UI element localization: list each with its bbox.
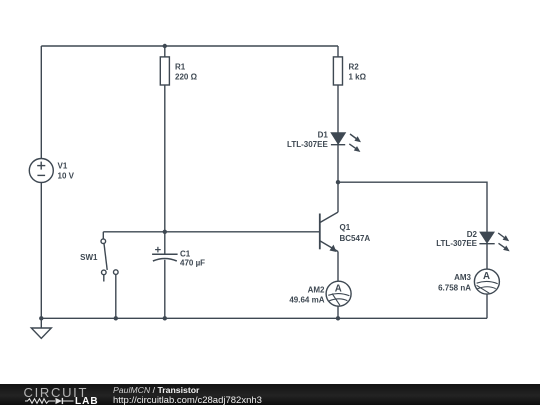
node: junction ground rail / ground symbol [39,316,43,320]
node: junction D1 cathode / D2 branch [336,180,340,184]
switch SW1 [101,239,118,275]
wire: SW1 common lead [102,232,104,239]
capacitor C1 [152,247,178,261]
wire: SW1 unused throw stub [103,275,105,282]
wire: Q1 emitter to AM2 [337,252,339,282]
svg-text:10 V: 10 V [58,172,75,181]
label R2 value [349,62,367,81]
wire: AM3 to ground rail [486,294,488,318]
node: junction top rail / R1 [163,44,167,48]
svg-text:LTL-307EE: LTL-307EE [287,140,328,149]
svg-text:6.758 nA: 6.758 nA [438,283,471,292]
wire: top rail from V1 to R2 [41,45,338,47]
node: junction ground rail / AM2 [336,316,340,320]
CircuitLab logo wordmark [24,386,89,399]
svg-text:A: A [483,271,490,282]
label Q1 value [340,223,371,243]
CircuitLab logo resistor-diode glyph and LAB [0,384,110,405]
wire: base net from SW1 to Q1 [103,231,319,233]
LED D1 [331,133,361,152]
label SW1 [80,253,98,262]
svg-text:1 kΩ: 1 kΩ [349,72,367,81]
wire: left rail upper (V1 positive lead) [40,46,42,159]
node: junction ground rail / SW1 throw [114,316,118,320]
wire: AM2 to ground rail [337,306,339,318]
svg-text:R1: R1 [175,62,186,71]
label AM3 value [438,273,471,293]
svg-text:C1: C1 [180,249,191,258]
wire: C1 bottom lead [164,260,166,319]
svg-text:LTL-307EE: LTL-307EE [436,239,477,248]
ground [31,318,51,338]
wire: left rail lower (V1 negative lead to ground) [40,183,42,319]
label D1 value [287,130,328,149]
voltage source V1 [29,159,53,183]
label AM2 A symbol [335,283,342,294]
resistor R1 [160,57,169,85]
svg-text:D1: D1 [318,130,329,139]
label AM2 value [289,285,325,304]
wire: bottom ground rail [41,317,487,319]
ammeter AM3 [474,269,499,294]
svg-text:D2: D2 [467,230,478,239]
label AM3 A symbol [483,271,490,282]
svg-text:V1: V1 [58,162,68,171]
resistor R2 [333,57,342,85]
svg-text:49.64 mA: 49.64 mA [289,295,324,304]
svg-text:Q1: Q1 [340,223,351,232]
svg-text:LAB: LAB [75,396,99,405]
svg-text:470 µF: 470 µF [180,258,205,267]
svg-text:AM2: AM2 [308,285,325,294]
wire: D1 node to D2 branch [338,182,487,232]
label C1 value [180,249,205,267]
label D2 value [436,230,477,248]
LED D2 [479,232,509,251]
wire: D2 to AM3 [486,244,488,270]
svg-text:A: A [335,283,342,294]
wire: SW1 throw to ground rail [115,274,117,318]
svg-text:220 Ω: 220 Ω [175,72,198,81]
footer title text [113,386,262,405]
ammeter AM2 [326,281,351,306]
node: junction ground rail / C1 [163,316,167,320]
svg-text:SW1: SW1 [80,253,98,262]
transistor Q1 [320,212,338,252]
svg-text:BC547A: BC547A [340,234,371,243]
node: junction base net / R1-C1 [163,230,167,234]
svg-text:AM3: AM3 [454,273,471,282]
svg-text:R2: R2 [349,62,360,71]
label V1 value [58,162,75,181]
wire: R2/D1/Q1 collector vertical [337,46,339,212]
label R1 value [175,62,198,81]
wire: R1/C1 branch vertical [164,46,166,254]
